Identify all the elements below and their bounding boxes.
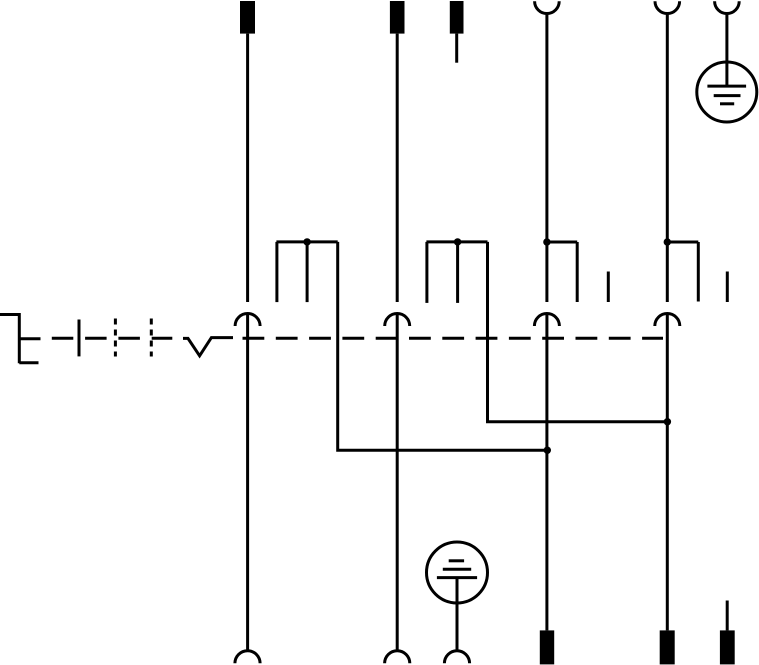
terminal block T2 (top) bbox=[390, 1, 405, 34]
wire E upper bbox=[666, 14, 669, 303]
wire C lower bbox=[456, 578, 459, 650]
tick D isolated bbox=[607, 272, 610, 303]
node on wire D bbox=[544, 447, 551, 454]
wire F upper bbox=[725, 14, 728, 87]
socket cup F (top) bbox=[715, 1, 740, 13]
socket arch B (bottom) bbox=[385, 651, 410, 664]
wire C stub bbox=[455, 34, 458, 63]
wire comb1 to D bbox=[338, 242, 548, 450]
dashed boundary line (left section) bbox=[52, 337, 173, 340]
connector arc D bbox=[534, 314, 559, 327]
dashed tick 1 bbox=[114, 319, 117, 357]
terminal block T3 (top) bbox=[450, 1, 464, 34]
wire B lower bbox=[396, 314, 399, 650]
node comb2 bbox=[454, 238, 461, 245]
wire A lower bbox=[246, 314, 249, 650]
connector arc A bbox=[235, 314, 260, 327]
branch comb 2 bbox=[426, 242, 487, 303]
branch D bbox=[547, 242, 577, 302]
solid tick on dashed line bbox=[78, 320, 81, 357]
wire D lower bbox=[545, 314, 548, 631]
wire E lower bbox=[666, 314, 669, 631]
wire A upper bbox=[246, 34, 249, 302]
node D branch bbox=[543, 238, 550, 245]
earth electrode terminal (left bracket symbol) bbox=[0, 315, 41, 364]
socket arch A (bottom) bbox=[235, 651, 260, 664]
connector arc E bbox=[655, 314, 680, 327]
dashed boundary line (right section) bbox=[243, 337, 664, 340]
wire F stub (bottom) bbox=[726, 601, 729, 631]
terminal block T4 (bottom) bbox=[540, 630, 554, 664]
wire B upper bbox=[396, 34, 399, 302]
terminal block T5 (bottom) bbox=[660, 630, 675, 664]
terminal block T1 (top) bbox=[240, 1, 255, 34]
node on wire E bbox=[664, 418, 671, 425]
protective earth circle C (inverted) bbox=[427, 542, 488, 603]
check-mark surge symbol bbox=[183, 338, 233, 356]
dashed tick 2 bbox=[150, 319, 153, 357]
connector arc B bbox=[385, 314, 410, 327]
wire comb2 to E bbox=[488, 242, 668, 422]
terminal block T6 (bottom) bbox=[720, 630, 735, 664]
node comb1 bbox=[303, 238, 310, 245]
node E branch bbox=[664, 238, 671, 245]
protective earth circle F bbox=[697, 62, 757, 122]
branch E bbox=[667, 242, 698, 302]
tick E isolated bbox=[726, 272, 729, 303]
socket cup D (top) bbox=[535, 1, 560, 13]
socket arch C (bottom) bbox=[444, 651, 469, 664]
wire D upper bbox=[545, 14, 548, 303]
branch comb 1 bbox=[276, 242, 337, 302]
socket cup E (top) bbox=[655, 1, 680, 13]
